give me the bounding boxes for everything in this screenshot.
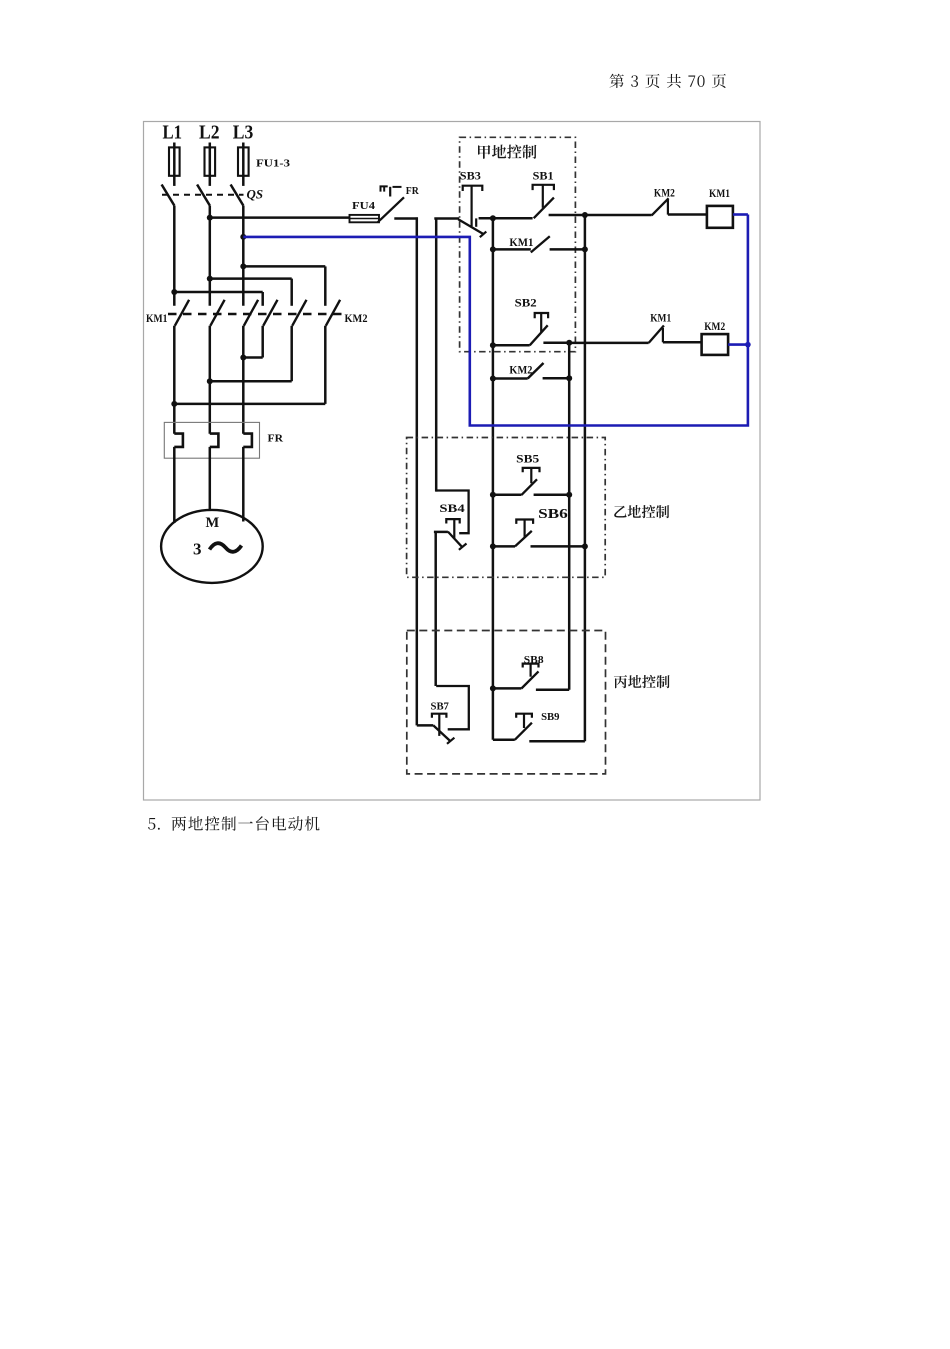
svg-text:FU1-3: FU1-3 xyxy=(256,159,290,170)
wire SB5 left xyxy=(493,494,522,497)
svg-text:KM2: KM2 xyxy=(509,363,532,377)
motor tilde symbol xyxy=(210,543,242,552)
wire KM2 aux left xyxy=(493,377,528,380)
svg-text:L1: L1 xyxy=(163,122,183,144)
outer diagram border frame xyxy=(144,122,761,801)
wire SB9 left xyxy=(493,739,515,742)
button SB1 cap xyxy=(533,185,554,190)
button SB9 blade xyxy=(515,723,532,740)
junction dot L3 to KM2 poleC xyxy=(240,263,246,269)
contact KM2 interlock tick xyxy=(667,200,669,215)
contactor KM1 main blade3 xyxy=(244,300,258,326)
junction dot SB6 left xyxy=(490,543,496,549)
svg-text:SB5: SB5 xyxy=(516,454,539,466)
wire KM2 poleC top vertical xyxy=(324,266,327,305)
svg-text:QS: QS xyxy=(247,188,264,202)
svg-text:SB2: SB2 xyxy=(515,298,537,310)
page header text: 第 3 页 共 70 页 xyxy=(610,74,726,88)
svg-text:KM1: KM1 xyxy=(509,235,533,249)
fuse FU3 (L3) xyxy=(238,147,249,175)
wire SB5 right xyxy=(534,494,570,497)
junction dot node2 xyxy=(582,212,588,218)
wire stop-chain rail A (x417) xyxy=(416,217,419,725)
motor label 3 xyxy=(193,540,202,559)
wire L3 rail lower xyxy=(242,326,245,434)
button SB5 cap xyxy=(523,468,540,472)
svg-text:KM2: KM2 xyxy=(654,186,675,200)
fuse FU1 (L1) xyxy=(169,147,180,175)
wire KM2 poleB bottom to L2 xyxy=(210,380,292,383)
svg-text:SB6: SB6 xyxy=(538,506,568,521)
wire stop-chain rail B lower (x436) xyxy=(434,532,437,686)
button SB7 blade xyxy=(433,725,450,741)
coil KM2 xyxy=(702,334,729,355)
FR heater element L2 xyxy=(210,434,219,447)
label KM2 interlock xyxy=(654,186,675,200)
label SB3 xyxy=(460,171,481,183)
junction dot L2 to FU4 line xyxy=(207,215,213,221)
label SB8 xyxy=(524,655,544,666)
svg-text:SB4: SB4 xyxy=(439,503,465,515)
FR heater element L3 xyxy=(243,434,252,447)
contactor KM1 main blade1 xyxy=(175,300,189,326)
label KM1 main contacts xyxy=(146,311,168,325)
button SB8 stem xyxy=(529,664,531,677)
label KM2 coil xyxy=(704,319,725,333)
junction dot SB2 left xyxy=(490,342,496,348)
label FU1-3 xyxy=(256,159,290,170)
junction dot SB5 left xyxy=(490,492,496,498)
wire L2 above fuse xyxy=(209,143,212,186)
label SB1 xyxy=(533,171,554,183)
label 乙地控制 xyxy=(614,505,669,518)
button SB3 stem xyxy=(471,186,473,227)
blue wire main path xyxy=(243,215,748,426)
motor label M xyxy=(206,515,220,531)
svg-text:KM2: KM2 xyxy=(704,319,725,333)
label SB2 xyxy=(515,298,537,310)
button SB2 stem xyxy=(540,313,542,333)
svg-text:L3: L3 xyxy=(233,122,254,144)
button SB1 stem xyxy=(542,185,544,208)
wire SB6 left xyxy=(493,545,515,548)
wire rail node1 down xyxy=(492,218,495,740)
wire motor lead L3 xyxy=(242,447,245,522)
wire KM1 aux right xyxy=(550,248,585,251)
junction dot KM1 aux right xyxy=(582,246,588,252)
contact KM1 interlock tick xyxy=(662,328,664,342)
svg-text:SB3: SB3 xyxy=(460,171,481,183)
wire KM2 poleB top vertical xyxy=(290,279,293,306)
svg-text:KM2: KM2 xyxy=(345,311,368,325)
button SB8 cap xyxy=(523,664,539,668)
FR heater element L1 xyxy=(174,434,183,447)
junction dot SB6 right xyxy=(582,543,588,549)
dashed box 甲地控制 xyxy=(460,137,576,351)
caption text 5．两地控制一台电动机 xyxy=(148,816,319,831)
label SB4 xyxy=(439,503,465,515)
wire SB4 left terminal xyxy=(434,531,448,534)
wire L1 rail upper xyxy=(173,206,176,306)
contactor KM1 main blade2 xyxy=(210,300,224,326)
contactor KM2 main blade2 xyxy=(292,300,306,326)
svg-text:SB1: SB1 xyxy=(533,171,554,183)
button SB6 stem xyxy=(523,520,525,538)
label FR (contact) xyxy=(406,186,419,197)
wire SB3 feed stub xyxy=(434,217,459,220)
button SB7 stem xyxy=(438,714,440,736)
contact KM1 aux blade xyxy=(531,236,550,252)
svg-text:KM1: KM1 xyxy=(146,311,168,325)
label FR (overload) xyxy=(268,433,285,445)
thermal contact FR hook tick xyxy=(383,186,385,191)
blue junction dot xyxy=(745,342,751,348)
button SB7 cap xyxy=(432,714,447,718)
contact KM2 aux blade xyxy=(528,363,544,379)
wire L3 rail upper xyxy=(242,206,245,306)
junction dot poleA to L3 xyxy=(240,355,246,361)
button SB5 blade xyxy=(522,479,538,495)
label FU4 xyxy=(352,201,375,212)
wire SB2 right xyxy=(543,341,569,344)
wire L1 rail lower xyxy=(173,326,176,434)
svg-text:SB7: SB7 xyxy=(431,701,449,712)
wire KM2 poleC bottom vertical xyxy=(324,326,327,404)
dashed box 丙地控制 xyxy=(407,631,606,774)
wire L1 to KM2 poleA top xyxy=(174,291,262,294)
wire SB8 right xyxy=(536,689,569,692)
switch QS linkage dashed line xyxy=(162,194,244,196)
wire KM2 poleC bottom to L1 xyxy=(174,403,325,406)
junction dot SB5 right xyxy=(566,492,572,498)
wire rail SB2-node down xyxy=(568,343,571,690)
button SB1 blade xyxy=(534,198,554,219)
wire FR out to corner xyxy=(394,217,418,220)
wire SB2 left xyxy=(493,344,530,347)
junction dot KM1 aux left xyxy=(490,246,496,252)
junction dot node1 xyxy=(490,215,496,221)
switch QS blade pole3 xyxy=(231,185,244,206)
junction dot L1 to KM2 poleA xyxy=(171,289,177,295)
motor M circle xyxy=(161,510,263,583)
wire KM2 poleA bottom to L3 xyxy=(243,356,262,359)
wire SB1 out to KM2 nc xyxy=(549,214,652,217)
fuse FU4 xyxy=(350,215,380,222)
wire L2 to KM2 poleB top xyxy=(210,277,292,280)
contactor KM2 main blade3 xyxy=(326,300,340,326)
contactor KM2 main blade1 xyxy=(263,300,277,326)
button SB9 cap xyxy=(516,714,532,718)
wire KM1 aux left xyxy=(493,248,531,251)
label SB9 xyxy=(541,712,559,723)
node L2 label xyxy=(199,122,220,144)
thermal relay FR box xyxy=(164,422,259,458)
blue wire KM1 coil out xyxy=(733,213,748,216)
wire SB7 bypass jog xyxy=(436,686,469,729)
thermal contact FR hook right xyxy=(393,186,402,188)
button SB3 blade xyxy=(458,219,483,234)
junction dot poleC to L1 xyxy=(171,401,177,407)
thermal contact FR hook left xyxy=(381,186,388,191)
wire rail node2 down xyxy=(584,215,587,741)
thermal contact FR stem xyxy=(389,187,391,197)
fuse FU2 (L2) xyxy=(205,147,216,175)
label QS xyxy=(247,188,264,202)
button SB2 blade xyxy=(530,325,548,345)
svg-text:3: 3 xyxy=(193,540,202,559)
wire KM2 aux right xyxy=(543,377,570,380)
wire SB9 right xyxy=(529,740,585,743)
wire control feed to FU4 xyxy=(210,216,350,219)
svg-text:SB9: SB9 xyxy=(541,712,559,723)
wire L2 rail lower xyxy=(209,326,212,434)
button SB3 cap xyxy=(463,186,483,191)
junction dot SB8 left xyxy=(490,685,496,691)
junction dot KM2 aux left xyxy=(490,376,496,382)
svg-text:KM1: KM1 xyxy=(650,311,671,325)
dashed box 乙地控制 xyxy=(407,438,606,578)
button SB9 stem xyxy=(523,714,525,728)
switch QS blade pole2 xyxy=(197,185,210,206)
wire KM2 poleA top vertical xyxy=(261,292,264,306)
svg-text:KM1: KM1 xyxy=(709,186,730,200)
wire L3 to KM2 poleC top xyxy=(243,265,325,268)
wire KM2 poleB bottom vertical xyxy=(290,326,293,381)
wire SB3 to node1 xyxy=(479,217,533,220)
wire to KM1 coil xyxy=(668,213,707,216)
contact KM2 interlock blade xyxy=(652,198,669,215)
label KM1 interlock xyxy=(650,311,671,325)
label SB7 xyxy=(431,701,449,712)
button SB7 blade tick xyxy=(447,738,454,744)
button SB4 blade tick xyxy=(459,544,467,550)
label KM1 coil xyxy=(709,186,730,200)
junction dot SB2 right xyxy=(566,340,572,346)
button SB6 cap xyxy=(516,520,533,524)
wire SB6 right xyxy=(531,545,585,548)
wire SB4 bypass jog xyxy=(436,491,468,534)
wire L1 above fuse xyxy=(173,143,176,186)
node L1 label xyxy=(163,122,183,144)
label KM2 aux contact xyxy=(509,363,532,377)
switch QS blade pole1 xyxy=(162,185,175,206)
node L3 label xyxy=(233,122,254,144)
svg-text:M: M xyxy=(206,515,220,531)
label SB5 xyxy=(516,454,539,466)
button SB4 stem xyxy=(453,519,455,538)
wire L2 rail upper xyxy=(209,206,212,306)
junction dot KM2 aux right xyxy=(566,375,572,381)
KM contacts linkage dashed line xyxy=(168,313,342,315)
junction dot poleB to L2 xyxy=(207,378,213,384)
svg-text:L2: L2 xyxy=(199,122,220,144)
wire SB7 left terminal xyxy=(417,724,434,727)
button SB3 fixed tick xyxy=(475,218,477,226)
button SB5 stem xyxy=(530,468,532,483)
button SB6 blade xyxy=(515,531,532,547)
svg-text:FR: FR xyxy=(268,433,285,445)
wire to KM2 coil xyxy=(663,341,702,344)
button SB3 blade tick xyxy=(480,232,487,238)
wire L3 above fuse xyxy=(242,143,245,186)
label KM1 aux contact xyxy=(509,235,533,249)
label 丙地控制 xyxy=(614,675,670,688)
wire KM2 poleA bottom vertical xyxy=(261,326,264,358)
label KM2 main contacts xyxy=(345,311,368,325)
wire SB2 node to KM1 nc xyxy=(569,342,649,345)
fuse FU4 inner line xyxy=(350,218,380,220)
button SB2 cap xyxy=(535,313,548,318)
wire motor lead L1 xyxy=(173,447,176,523)
junction dot L2 to KM2 poleB xyxy=(207,276,213,282)
button SB8 blade xyxy=(521,671,538,688)
button SB4 blade xyxy=(448,532,463,548)
wire motor lead L2 xyxy=(209,447,212,511)
thermal contact FR blade xyxy=(378,197,404,222)
svg-text:FU4: FU4 xyxy=(352,201,375,212)
contact KM1 interlock blade xyxy=(649,326,664,343)
label 甲地控制 xyxy=(478,145,537,159)
button SB4 cap xyxy=(446,519,459,523)
wire SB8 left xyxy=(493,687,522,690)
junction dot L3 blue tap xyxy=(240,234,246,240)
coil KM1 xyxy=(707,206,733,228)
svg-text:FR: FR xyxy=(406,186,419,197)
blue wire KM2 coil out xyxy=(728,343,748,346)
label SB6 xyxy=(538,506,568,521)
wire stop-chain rail B upper (x436) xyxy=(435,219,438,492)
